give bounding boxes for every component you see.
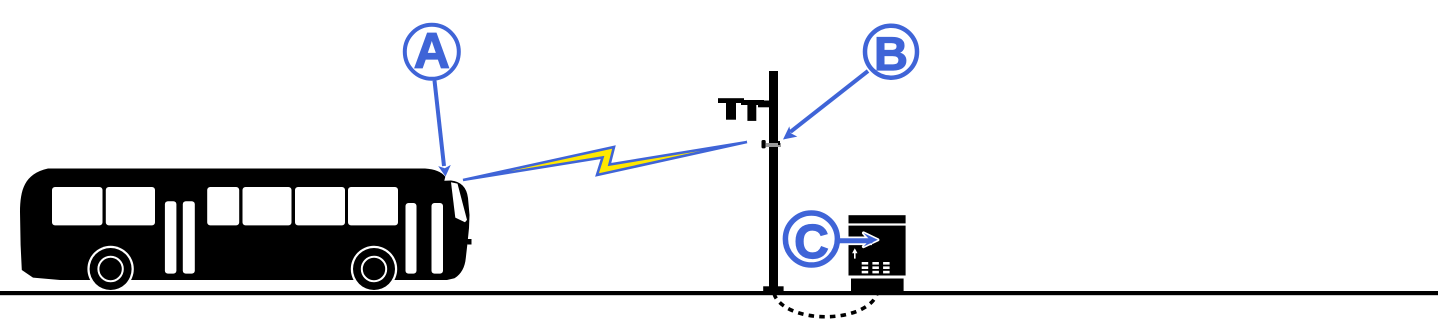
svg-text:B: B — [874, 27, 908, 80]
window 2 — [106, 187, 155, 225]
window 6 — [348, 187, 398, 225]
antenna stub 1 — [726, 103, 736, 120]
label A arrow shaft — [435, 81, 445, 167]
mirror bump — [467, 239, 471, 245]
rear wheel well — [87, 246, 133, 292]
cabinet body — [849, 226, 906, 276]
svg-text:A: A — [414, 23, 450, 79]
window 1 — [52, 187, 103, 225]
label B circle — [865, 26, 917, 78]
label C arrow shaft — [839, 238, 873, 243]
antenna arm joint — [758, 101, 770, 108]
underground cable (dashed arc) — [774, 294, 877, 317]
lightning bolt (radio link) — [463, 142, 747, 180]
label A arrowhead — [438, 165, 451, 177]
cabinet plinth — [851, 279, 904, 292]
label A circle — [405, 25, 459, 79]
pole — [769, 71, 778, 291]
front door glass 1 — [406, 203, 417, 274]
middle door glass 1 — [165, 201, 177, 273]
label C circle — [785, 213, 837, 265]
antenna crossarm right segment — [741, 100, 764, 105]
window 4 — [243, 187, 292, 225]
label B arrow shaft — [791, 71, 869, 132]
label C arrowhead — [864, 233, 878, 247]
rear wheel tire — [90, 248, 132, 290]
front wheel tire — [353, 248, 395, 290]
front wheel hub ring — [362, 257, 386, 281]
cabinet top bar — [849, 215, 906, 223]
antenna crossarm — [718, 98, 744, 103]
pole base — [763, 286, 783, 292]
pole-mounted unit right bump — [778, 141, 780, 145]
pole-mounted unit strap (gray) — [766, 143, 782, 147]
front door glass 2 — [432, 203, 444, 274]
window 5 — [295, 187, 345, 225]
ground line — [0, 291, 1438, 295]
windshield — [451, 182, 467, 222]
window 3 — [207, 187, 239, 225]
svg-text:C: C — [794, 216, 829, 269]
label C arrow white casing — [848, 233, 878, 247]
pole-mounted unit tick — [762, 140, 766, 148]
cabinet keypad — [862, 262, 890, 273]
bus body — [20, 169, 472, 293]
rear wheel hub ring — [98, 257, 122, 281]
cabinet door up-arrow — [852, 248, 857, 258]
middle door glass 2 — [183, 201, 195, 273]
label B arrowhead — [783, 126, 797, 139]
front wheel well — [351, 246, 397, 292]
antenna stub 2 — [747, 104, 756, 121]
